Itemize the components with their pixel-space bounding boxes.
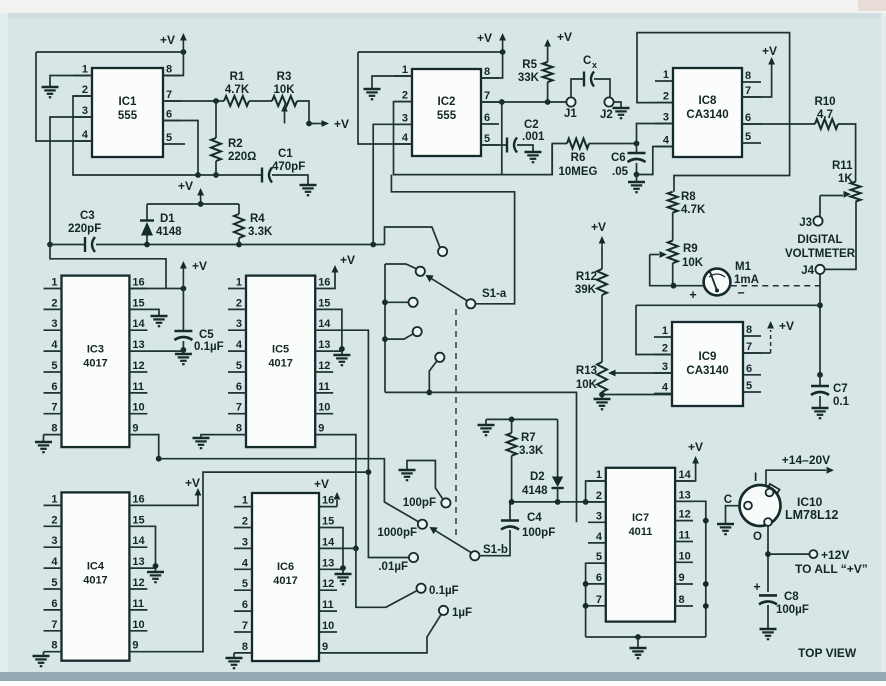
svg-text:.01µF: .01µF <box>378 561 408 573</box>
svg-text:R2: R2 <box>228 138 243 150</box>
svg-text:LM78L12: LM78L12 <box>785 508 839 522</box>
svg-text:6: 6 <box>51 598 57 610</box>
wire R7 top rail <box>486 417 558 423</box>
svg-text:C6: C6 <box>611 152 626 164</box>
svg-text:+V: +V <box>160 33 175 47</box>
svg-text:S1-b: S1-b <box>483 544 508 556</box>
svg-text:33K: 33K <box>518 72 540 84</box>
potentiometer R3 10K <box>272 71 297 124</box>
svg-text:10K: 10K <box>273 84 295 96</box>
svg-text:J4: J4 <box>801 265 814 277</box>
svg-text:R3: R3 <box>277 71 292 83</box>
svg-text:8: 8 <box>51 423 57 435</box>
svg-text:8: 8 <box>51 640 57 652</box>
svg-text:7: 7 <box>596 594 602 606</box>
svg-text:7: 7 <box>746 341 752 353</box>
svg-text:IC6: IC6 <box>277 561 294 573</box>
svg-text:4148: 4148 <box>522 485 548 497</box>
wire IC3 pin16 to +V/C5 <box>129 286 186 292</box>
ground (C2) <box>525 152 542 162</box>
svg-text:100pF: 100pF <box>403 497 436 509</box>
wire IC1 pin3 riser <box>50 117 92 245</box>
svg-text:x: x <box>592 60 597 70</box>
svg-text:4017: 4017 <box>83 358 107 370</box>
svg-text:7: 7 <box>236 402 242 414</box>
svg-text:IC9: IC9 <box>699 351 717 363</box>
svg-text:6: 6 <box>51 381 57 393</box>
svg-text:13: 13 <box>132 339 144 351</box>
svg-text:10: 10 <box>132 619 144 631</box>
svg-text:3: 3 <box>82 105 88 117</box>
svg-text:7: 7 <box>745 85 751 97</box>
svg-text:5: 5 <box>746 380 752 392</box>
ground (IC5 pin13) <box>333 355 350 365</box>
svg-text:3: 3 <box>242 536 248 548</box>
svg-text:3: 3 <box>236 318 242 330</box>
op-amp IC8 CA3140 <box>655 68 761 157</box>
svg-text:16: 16 <box>322 495 334 507</box>
svg-text:4: 4 <box>82 129 89 141</box>
svg-text:470pF: 470pF <box>272 161 305 173</box>
wire IC1 pin8 to +V <box>163 53 183 76</box>
ground (IC4 pin13) <box>147 572 164 582</box>
wire contact2 S1-a <box>385 264 416 269</box>
wire S1-a contact bus <box>382 264 388 392</box>
svg-text:8: 8 <box>236 423 242 435</box>
op-amp IC2 555 timer <box>394 64 499 156</box>
switch S1-a contact 5 <box>435 353 444 362</box>
svg-text:0.1µF: 0.1µF <box>429 585 459 597</box>
svg-text:3.3K: 3.3K <box>519 445 544 457</box>
IC5 4017 counter <box>228 276 333 448</box>
svg-text:2: 2 <box>236 297 242 309</box>
wire IC2 pin7 out <box>481 99 567 105</box>
capacitor C8 100uF <box>753 580 809 628</box>
svg-text:11: 11 <box>679 530 691 542</box>
wire IC2 pin4 to +V loop <box>358 52 412 144</box>
power +V (R12 rail) <box>591 220 606 269</box>
switch S1-b wiper arm <box>430 527 472 553</box>
wire IC1 pin1 to ground <box>50 76 92 87</box>
svg-text:12: 12 <box>318 360 330 372</box>
wire IC7 right bus <box>675 501 709 637</box>
wire R10 to R11 <box>838 124 856 182</box>
wire IC7 pin1 loop <box>586 481 606 502</box>
svg-text:R7: R7 <box>521 432 536 444</box>
svg-text:4.7K: 4.7K <box>225 84 250 96</box>
switch S1-a contact 100pF range <box>438 247 447 256</box>
resistor R12 39K <box>575 269 607 362</box>
svg-text:14: 14 <box>318 318 331 330</box>
svg-text:+14–20V: +14–20V <box>782 453 830 467</box>
wire IC4 pins15/13 ground <box>147 526 158 571</box>
resistor R7 3.3K <box>507 419 544 502</box>
svg-text:IC4: IC4 <box>87 560 105 572</box>
wire IC9 pin2 loop <box>636 305 672 354</box>
svg-text:4017: 4017 <box>83 574 107 586</box>
capacitor C4 100pF <box>501 502 555 539</box>
svg-text:+V: +V <box>334 117 349 131</box>
svg-text:DIGITAL: DIGITAL <box>797 234 842 246</box>
svg-text:10: 10 <box>322 620 334 632</box>
wire IC6 pin9 to 1uF contact <box>337 614 441 653</box>
svg-text:1000pF: 1000pF <box>377 527 417 539</box>
svg-text:IC5: IC5 <box>272 344 289 356</box>
svg-text:13: 13 <box>322 557 334 569</box>
svg-text:R11: R11 <box>832 160 853 172</box>
ground (100pF contact) <box>399 461 443 500</box>
svg-text:15: 15 <box>318 297 330 309</box>
jack J3 <box>799 216 822 229</box>
svg-text:100µF: 100µF <box>776 604 809 616</box>
wire +V top rail IC2 <box>358 49 506 55</box>
wire IC1 pin2 loop <box>73 96 198 175</box>
svg-text:4: 4 <box>663 135 670 147</box>
svg-text:8: 8 <box>242 641 248 653</box>
svg-text:1: 1 <box>663 69 669 81</box>
svg-text:3: 3 <box>662 361 668 373</box>
svg-text:1: 1 <box>236 277 242 289</box>
wire IC6 pin16 +V <box>314 477 340 507</box>
capacitor C2 .001 <box>507 119 545 153</box>
wire S1-a bottom rail to IC7 pin3 <box>385 392 577 522</box>
wire IC1 pin4 to +V loop <box>36 52 92 141</box>
svg-text:R10: R10 <box>814 96 835 108</box>
wire IC5 pin9 riser <box>333 435 359 552</box>
svg-text:16: 16 <box>318 277 330 289</box>
svg-text:+V: +V <box>340 253 355 267</box>
svg-text:.05: .05 <box>612 166 629 178</box>
wire +V top rail IC1 <box>36 49 186 55</box>
svg-text:J2: J2 <box>600 109 613 121</box>
svg-text:1: 1 <box>51 493 57 505</box>
svg-text:14: 14 <box>132 535 145 547</box>
svg-text:5: 5 <box>242 578 248 590</box>
svg-text:1: 1 <box>402 64 408 76</box>
wire contact5 riser <box>426 361 437 396</box>
ground (IC2 pin1) <box>364 89 381 99</box>
svg-text:220Ω: 220Ω <box>228 151 256 163</box>
svg-text:9: 9 <box>322 641 328 653</box>
wire switch gang link (dashed) <box>455 309 457 540</box>
svg-text:4148: 4148 <box>156 226 182 238</box>
capacitor Cx <box>571 55 610 98</box>
jack +12V output <box>795 548 868 576</box>
svg-text:R1: R1 <box>230 71 245 83</box>
wire link C3 node to IC3 <box>50 245 166 289</box>
power +V (IC2) <box>477 31 506 52</box>
svg-text:C: C <box>724 494 732 506</box>
svg-text:3: 3 <box>51 318 57 330</box>
ground (J2) <box>613 108 630 118</box>
switch S1-a wiper arm <box>426 275 468 301</box>
svg-text:9: 9 <box>318 423 324 435</box>
resistor R10 4.7 <box>814 96 838 129</box>
wire IC2 pin2 loop <box>394 102 553 175</box>
svg-text:C2: C2 <box>524 119 539 131</box>
svg-text:+V: +V <box>779 319 794 333</box>
wire IC8 pin2 feedback loop <box>637 33 790 192</box>
wire IC5 pin8 ground <box>201 435 228 437</box>
svg-text:C4: C4 <box>527 512 542 524</box>
ground (C1) <box>300 185 317 195</box>
svg-text:4: 4 <box>51 556 58 568</box>
wire R3 to +V <box>297 101 316 126</box>
svg-text:8: 8 <box>484 66 490 78</box>
svg-text:5: 5 <box>166 132 172 144</box>
svg-text:J1: J1 <box>564 108 577 120</box>
wire IC1 pin7 node <box>163 98 224 104</box>
wire main oscillator output rail <box>96 242 385 248</box>
svg-text:R12: R12 <box>576 271 597 283</box>
svg-text:13: 13 <box>318 339 330 351</box>
svg-text:4: 4 <box>596 531 603 543</box>
svg-text:4: 4 <box>242 557 249 569</box>
jack J2 <box>600 97 621 121</box>
svg-text:9: 9 <box>132 423 138 435</box>
svg-text:+V: +V <box>314 477 329 491</box>
svg-text:IC8: IC8 <box>699 95 718 107</box>
power +V (IC1) <box>160 33 187 52</box>
svg-text:16: 16 <box>132 277 144 289</box>
wire IC4 pin16 +V <box>147 476 201 505</box>
svg-text:6: 6 <box>236 381 242 393</box>
resistor R6 10MEG <box>552 139 639 179</box>
svg-text:14: 14 <box>322 536 335 548</box>
switch S1-b contact 1000pF <box>418 520 427 529</box>
wire 0.1uF branch <box>356 548 418 607</box>
svg-text:IC10: IC10 <box>797 495 823 509</box>
wire D2/R7/C4 node to IC7 pin2 <box>509 499 606 505</box>
wire R1-R3 <box>249 100 272 102</box>
svg-text:14: 14 <box>679 469 692 481</box>
ground (IC3 pin15) <box>151 316 168 326</box>
IC6 4017 counter <box>234 493 337 661</box>
svg-text:2: 2 <box>596 490 602 502</box>
wire main rail to contact 1 S1-a <box>385 227 441 248</box>
svg-text:2: 2 <box>242 516 248 528</box>
diode D2 4148 <box>522 419 564 502</box>
wire bottom node IC1 <box>198 174 263 176</box>
ground (C6) <box>628 182 645 192</box>
svg-text:1: 1 <box>242 495 248 507</box>
wire IC4 pin8 ground <box>43 652 45 655</box>
svg-text:+V: +V <box>185 476 200 490</box>
svg-text:13: 13 <box>132 556 144 568</box>
svg-text:3: 3 <box>596 510 602 522</box>
svg-text:4: 4 <box>402 132 409 144</box>
svg-text:S1-a: S1-a <box>482 288 507 300</box>
label 100pF <box>403 497 436 509</box>
ground (IC6 pin13) <box>335 574 352 584</box>
diode D1 4148 <box>140 204 182 245</box>
svg-text:3: 3 <box>402 112 408 124</box>
power +V (D1/R4 rail) <box>178 179 204 207</box>
svg-text:5: 5 <box>236 360 242 372</box>
svg-text:12: 12 <box>132 360 144 372</box>
wire M1 to J4 (dashed) <box>731 285 820 287</box>
svg-text:1K: 1K <box>838 173 853 185</box>
svg-text:C: C <box>583 55 591 67</box>
wire IC7 bottom rail <box>586 634 706 647</box>
wire IC3 pin15 ground <box>147 309 159 315</box>
svg-text:15: 15 <box>132 297 144 309</box>
op-amp IC1 555 timer <box>73 64 185 158</box>
svg-text:3: 3 <box>663 112 669 124</box>
label TOP VIEW <box>798 646 857 660</box>
svg-text:8: 8 <box>166 64 172 76</box>
wire S1-a pole to IC2 <box>391 175 514 304</box>
switch S1-b contact 1uF <box>439 606 448 615</box>
svg-text:5: 5 <box>745 131 751 143</box>
jack J1 <box>564 97 577 120</box>
svg-text:+V: +V <box>688 440 703 454</box>
svg-text:0.1: 0.1 <box>833 396 850 408</box>
svg-text:6: 6 <box>745 112 751 124</box>
switch S1-a pole <box>466 288 507 308</box>
svg-text:10: 10 <box>679 550 691 562</box>
wire IC7 left bus <box>583 563 606 637</box>
op-amp IC9 CA3140 <box>654 322 761 406</box>
svg-text:R9: R9 <box>683 243 698 255</box>
switch S1-a contact 4 <box>413 327 422 336</box>
svg-text:5: 5 <box>596 551 602 563</box>
svg-text:1: 1 <box>51 277 57 289</box>
svg-text:11: 11 <box>322 599 334 611</box>
svg-text:+V: +V <box>591 220 606 234</box>
svg-text:C1: C1 <box>278 148 293 160</box>
svg-text:8: 8 <box>679 594 685 606</box>
wire IC2 pin8 to +V <box>481 53 503 78</box>
switch S1-b contact 100pF <box>441 498 450 507</box>
wire S1-b pole to C4 <box>479 530 510 556</box>
regulator IC10 LM78L12 <box>740 484 839 526</box>
power +V (R3 wiper) <box>316 117 349 131</box>
svg-text:555: 555 <box>437 110 457 122</box>
svg-text:12: 12 <box>322 578 334 590</box>
svg-text:3.3K: 3.3K <box>248 226 273 238</box>
label 1uF <box>452 607 472 619</box>
svg-text:4: 4 <box>662 382 669 394</box>
wire IC9 feedback loop top <box>636 304 820 306</box>
svg-text:10MEG: 10MEG <box>559 166 598 178</box>
switch S1-a contact 3 <box>409 298 418 307</box>
svg-text:7: 7 <box>51 619 57 631</box>
switch S1-a contact 2 <box>416 267 425 276</box>
wire C6 to IC8 pin3 <box>637 124 674 144</box>
svg-text:CA3140: CA3140 <box>686 109 728 121</box>
svg-text:1: 1 <box>82 64 88 76</box>
svg-text:+V: +V <box>762 44 777 58</box>
svg-text:7: 7 <box>166 89 172 101</box>
wire R9 to M1 <box>674 286 705 302</box>
svg-text:6: 6 <box>166 109 172 121</box>
svg-text:6: 6 <box>746 363 752 375</box>
svg-text:12: 12 <box>679 509 691 521</box>
capacitor C5 0.1uF <box>174 289 223 354</box>
svg-text:3: 3 <box>51 535 57 547</box>
potentiometer R13 10K <box>576 362 672 398</box>
wire J4 down to IC9 node <box>817 274 823 378</box>
ground (IC1 pin1) <box>42 87 59 97</box>
svg-text:10: 10 <box>132 402 144 414</box>
svg-text:IC7: IC7 <box>632 512 649 524</box>
wire IC10 input +14-20V <box>754 453 834 485</box>
potentiometer R9 10K <box>650 241 704 289</box>
jack J4 <box>801 265 824 277</box>
svg-text:14: 14 <box>132 318 145 330</box>
svg-text:39K: 39K <box>575 284 597 296</box>
svg-text:10K: 10K <box>576 379 598 391</box>
svg-text:7: 7 <box>242 620 248 632</box>
resistor R4 3.3K <box>234 204 273 245</box>
svg-text:10: 10 <box>318 402 330 414</box>
svg-text:11: 11 <box>132 598 144 610</box>
ground (C5) <box>175 354 192 364</box>
wire IC5 pin14 to .01uF contact <box>333 330 408 557</box>
IC3 4017 counter <box>44 276 148 448</box>
capacitor C1 470pF <box>262 148 308 184</box>
wire IC6 pin8 ground <box>233 653 235 657</box>
ground (C7) <box>812 408 829 418</box>
svg-text:TOP VIEW: TOP VIEW <box>798 646 857 660</box>
svg-text:+V: +V <box>178 179 193 193</box>
svg-text:D2: D2 <box>530 471 545 483</box>
svg-text:4011: 4011 <box>629 526 653 538</box>
svg-text:8: 8 <box>746 324 752 336</box>
potentiometer R11 1K <box>820 160 861 217</box>
power +V (IC3/C5) <box>180 259 207 289</box>
wire IC10 common to ground <box>724 494 740 523</box>
svg-text:+12V: +12V <box>821 548 849 562</box>
svg-text:1mA: 1mA <box>734 274 759 286</box>
svg-text:C5: C5 <box>199 329 214 341</box>
svg-text:0.1µF: 0.1µF <box>194 341 224 353</box>
wire IC2 pin5 <box>481 144 507 146</box>
wire D1/R4 top rail <box>147 203 239 205</box>
svg-text:+: + <box>689 288 696 302</box>
svg-text:4017: 4017 <box>268 358 292 370</box>
wire IC5 pins15/13 ground <box>333 309 345 354</box>
wire IC8 pin6 out <box>742 123 815 125</box>
ground (IC7) <box>630 648 647 658</box>
svg-text:11: 11 <box>132 381 144 393</box>
wire IC2 pin3 riser <box>373 124 412 244</box>
svg-text:R8: R8 <box>681 191 696 203</box>
svg-text:5: 5 <box>51 577 57 589</box>
svg-text:2: 2 <box>663 91 669 103</box>
ground (IC3 pin8) <box>35 442 52 452</box>
ground (IC4 pin8) <box>33 656 50 666</box>
svg-text:C7: C7 <box>833 383 848 395</box>
svg-text:4017: 4017 <box>273 575 297 587</box>
wire IC2 pin6 drop <box>499 99 505 175</box>
svg-text:10K: 10K <box>682 257 704 269</box>
svg-text:6: 6 <box>596 572 602 584</box>
svg-text:13: 13 <box>679 489 691 501</box>
ground (IC6 pin8) <box>226 658 243 668</box>
wire IC5 pin16 +V <box>332 253 355 289</box>
svg-text:6: 6 <box>484 112 490 124</box>
wire IC3 pin9 to 1000pF contact <box>147 435 418 522</box>
svg-text:IC2: IC2 <box>438 96 456 108</box>
svg-text:M1: M1 <box>735 261 752 273</box>
svg-text:2: 2 <box>82 84 88 96</box>
svg-text:4.7: 4.7 <box>817 109 833 121</box>
svg-text:.001: .001 <box>522 131 545 143</box>
svg-text:9: 9 <box>679 572 685 584</box>
svg-text:1: 1 <box>596 469 602 481</box>
